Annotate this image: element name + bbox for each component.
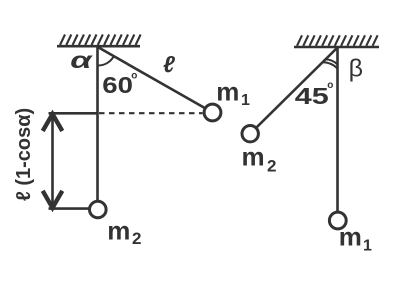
svg-text:m: m [107,215,130,245]
svg-text:α: α [70,48,94,74]
svg-text:45: 45 [295,84,329,109]
svg-text:ℓ: ℓ [163,51,175,77]
svg-text:ℓ (1-cosα): ℓ (1-cosα) [13,108,35,201]
svg-text:2: 2 [267,157,276,176]
svg-text:m: m [339,222,362,252]
svg-text:1: 1 [241,92,250,109]
svg-text:1: 1 [363,238,372,255]
svg-text:o: o [327,80,333,91]
svg-text:o: o [131,70,137,81]
svg-text:β: β [349,55,363,83]
svg-text:60: 60 [102,73,133,98]
svg-text:m: m [216,77,239,107]
svg-text:m: m [242,141,265,171]
svg-text:2: 2 [132,229,141,248]
